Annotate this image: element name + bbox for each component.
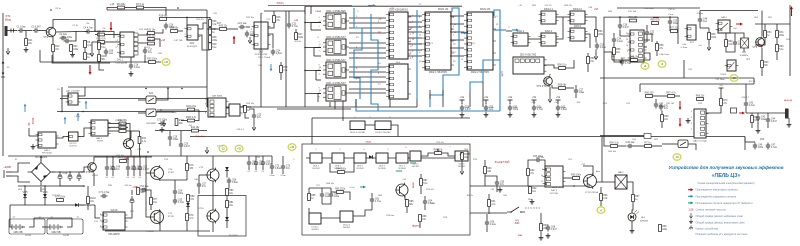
capacitor C41 <box>111 165 121 172</box>
wire <box>209 42 211 45</box>
IC DA7 (tone) <box>628 30 647 62</box>
signal arrow (blue) <box>461 32 467 35</box>
svg-text:R56 5,1к: R56 5,1к <box>557 65 567 67</box>
module DA9 И486 <box>208 98 229 117</box>
wire (pin link) <box>450 15 464 17</box>
transistor VT10 КТ315 <box>206 209 219 224</box>
wire <box>631 221 633 228</box>
wire <box>198 175 200 182</box>
junction <box>24 185 26 187</box>
svg-text:4,7мк: 4,7мк <box>625 63 632 65</box>
wire <box>52 171 56 173</box>
resistor <box>209 20 218 27</box>
wire <box>60 181 84 186</box>
capacitor C51 <box>756 115 767 122</box>
wire <box>174 196 176 198</box>
svg-text:R69 22к: R69 22к <box>696 96 705 98</box>
svg-text:R82 39к: R82 39к <box>536 157 544 159</box>
resistor R78 <box>488 200 497 207</box>
pin boxes DA7 <box>639 32 643 58</box>
wire <box>62 95 68 97</box>
wire <box>282 156 284 164</box>
logic cell DD8.2 <box>332 153 344 163</box>
wire <box>138 99 146 101</box>
junction <box>40 156 42 158</box>
capacitor C16 <box>252 113 262 120</box>
LED HL1 <box>628 210 639 221</box>
wire <box>726 33 744 38</box>
wire <box>212 181 214 210</box>
svg-text:Устройство для получения звуко: Устройство для получения звуковых эффект… <box>668 164 783 170</box>
wire <box>52 38 54 44</box>
diode VD3 <box>186 203 190 207</box>
wire (blue bus 5) <box>470 10 500 92</box>
svg-text:0,5мк: 0,5мк <box>561 109 568 111</box>
svg-text:Общий провод (минус) цифровых: Общий провод (минус) цифровых схем <box>696 214 743 218</box>
wire <box>556 16 570 18</box>
svg-text:С51 10мк: С51 10мк <box>715 79 724 81</box>
svg-text:Прохождение аналогового сигнал: Прохождение аналогового сигнала <box>696 188 739 192</box>
wire (main horizontal divider) <box>190 136 745 138</box>
svg-text:C53 1мк: C53 1мк <box>140 186 150 188</box>
svg-text:ЦАП: ЦАП <box>501 71 504 76</box>
wire <box>314 48 321 57</box>
svg-text:С16 0,1: С16 0,1 <box>236 129 244 131</box>
svg-text:0,5мк: 0,5мк <box>232 182 239 184</box>
switch linkage (dashed) <box>525 207 540 209</box>
wire <box>198 23 207 29</box>
wire (top right rail) <box>617 7 700 9</box>
svg-text:ЛАЙ: ЛАЙ <box>518 234 523 237</box>
svg-text:СЕ4А: СЕ4А <box>365 141 371 144</box>
pin boxes DA7.2 <box>547 168 551 186</box>
svg-text:КР142ЕН8: КР142ЕН8 <box>108 234 120 236</box>
wire <box>600 201 602 206</box>
wire <box>743 48 745 52</box>
svg-text:0,1мк: 0,1мк <box>269 175 274 177</box>
capacitor C50 <box>173 198 185 205</box>
wire <box>186 171 188 180</box>
capacitor C36 (electrolytic) <box>58 171 68 181</box>
wire <box>305 93 321 95</box>
resistor <box>209 36 218 43</box>
pin boxes DA9 <box>210 100 214 116</box>
wire (mid horizontal bus) <box>207 106 417 108</box>
junction <box>186 17 188 19</box>
svg-text:С45 1м: С45 1м <box>125 185 133 187</box>
bridge rectifier VD4 <box>28 159 55 186</box>
wire <box>311 29 321 31</box>
resistor R68 <box>725 40 734 47</box>
resistor R71 <box>776 45 785 52</box>
svg-text:DD1.2 К561ЛА7: DD1.2 К561ЛА7 <box>326 35 346 39</box>
resistor <box>147 36 156 41</box>
svg-text:R63 22к: R63 22к <box>564 5 572 7</box>
wire <box>566 87 574 89</box>
svg-text:3,58МГц: 3,58МГц <box>740 55 749 57</box>
svg-text:8: 8 <box>318 88 319 90</box>
wire <box>776 24 778 31</box>
svg-text:R45 22к: R45 22к <box>219 26 228 28</box>
svg-text:561ТЛ1: 561ТЛ1 <box>69 146 77 148</box>
svg-text:Прохождение сигнала генератора: Прохождение сигнала генератора ЧГ (вибра… <box>696 201 753 205</box>
wire <box>587 64 589 72</box>
wire <box>78 128 91 137</box>
svg-text:0,047: 0,047 <box>465 109 471 111</box>
svg-text:VT9 КТ315: VT9 КТ315 <box>536 84 549 88</box>
logic cell DD10.1 <box>309 213 321 224</box>
svg-text:0,047: 0,047 <box>771 121 777 123</box>
wire (gate feeder x305) <box>304 6 306 107</box>
power tap +5В <box>460 96 465 100</box>
pin boxes DA12 <box>701 111 705 136</box>
signal arrow (blue) <box>368 4 376 7</box>
capacitor C55 <box>370 197 382 204</box>
wire (vertical bus x261) <box>260 13 262 107</box>
resistor R54 <box>609 143 619 148</box>
wire <box>646 37 648 43</box>
resistor <box>147 30 156 35</box>
svg-text:C1 10мк: C1 10мк <box>17 26 27 28</box>
wire <box>106 172 108 177</box>
svg-text:СВ2 ВИКЛ: СВ2 ВИКЛ <box>146 123 156 125</box>
resistor R80 <box>529 187 538 194</box>
resistor R7 <box>136 4 145 9</box>
svg-text:R54 330: R54 330 <box>629 17 638 19</box>
resistor R5 <box>84 41 93 48</box>
wire (blue weave) <box>371 99 378 111</box>
wire <box>288 11 290 22</box>
wire <box>311 23 321 31</box>
wire <box>757 113 759 115</box>
voltage regulator DA10 КР142ЕН <box>101 208 128 230</box>
logic cell DD9.2 <box>376 153 388 163</box>
wire <box>29 135 38 137</box>
svg-text:100н: 100н <box>334 196 340 198</box>
schematic box (modulator) <box>198 196 246 237</box>
wire <box>725 33 727 40</box>
svg-text:R65 10к: R65 10к <box>608 151 616 153</box>
connector XT2 (output jack) <box>785 109 789 119</box>
svg-text:0,1мк: 0,1мк <box>490 224 497 226</box>
diode VD42 <box>225 217 229 221</box>
wire <box>371 193 373 197</box>
potentiometer R75 <box>433 150 443 155</box>
svg-text:КР574УД2: КР574УД2 <box>42 153 53 155</box>
capacitor C29 <box>271 49 283 56</box>
wire (maroon bus y109) <box>277 108 351 110</box>
wire <box>186 156 188 164</box>
highlight node +15 <box>235 145 243 152</box>
plug contacts <box>11 29 14 33</box>
resistor R34 <box>186 106 197 111</box>
wire <box>271 156 273 164</box>
wire (pin link) <box>408 55 422 57</box>
wire (pin link) <box>349 27 386 29</box>
resistor R64 <box>308 194 317 201</box>
svg-text:8: 8 <box>100 226 101 228</box>
capacitor C3 <box>62 37 73 43</box>
wire (blue bus horizontal) <box>356 99 500 111</box>
svg-text:Позиции приборов «У» находятся: Позиции приборов «У» находятся на плате <box>696 232 748 236</box>
transistor VT13 КТ815 <box>583 173 597 189</box>
svg-text:2: 2 <box>691 111 692 113</box>
resistor <box>147 59 158 64</box>
wire <box>305 47 321 49</box>
chassis ground <box>686 118 691 123</box>
wire (blue bus 4) <box>430 8 459 107</box>
capacitor C23 <box>595 43 607 50</box>
legend arrow digital (blue) <box>688 195 694 198</box>
wire (vertical bus x286) <box>285 11 287 107</box>
pin numbers (red) <box>453 17 456 63</box>
wire <box>99 62 104 70</box>
wire <box>95 34 97 36</box>
wire <box>107 8 117 11</box>
wire <box>187 207 189 214</box>
logic cell DD7.1 <box>396 153 408 163</box>
svg-text:DD9.1: DD9.1 <box>357 166 364 168</box>
svg-text:4: 4 <box>412 21 413 23</box>
logic cell DD16.1 <box>350 121 365 130</box>
wire <box>268 23 274 28</box>
svg-text:7: 7 <box>100 220 101 222</box>
wire <box>133 172 135 177</box>
chassis ground <box>787 122 792 127</box>
svg-text:11: 11 <box>250 41 252 43</box>
wire <box>255 167 257 171</box>
wire <box>304 6 306 14</box>
wire <box>91 32 114 39</box>
svg-text:R47 20к: R47 20к <box>116 155 124 157</box>
wire (pin link) <box>408 15 422 17</box>
svg-text:5: 5 <box>412 51 413 53</box>
power tap +5В <box>484 96 489 100</box>
wire <box>420 174 422 179</box>
svg-text:С42 100: С42 100 <box>628 11 637 13</box>
capacitor C23 (decoupling) <box>556 105 568 112</box>
wire <box>155 39 160 47</box>
wire <box>632 202 633 213</box>
capacitor C50 <box>744 101 756 108</box>
svg-text:C3 0,047: C3 0,047 <box>31 26 41 28</box>
svg-text:DA6.1: DA6.1 <box>96 137 103 140</box>
wire <box>544 65 558 68</box>
wire (rail y62) <box>40 61 161 63</box>
transistor VT12 <box>395 183 408 198</box>
pin numbers (red) <box>419 17 422 63</box>
wire <box>146 156 150 173</box>
wire (rail y24) <box>755 23 790 25</box>
junction <box>59 171 61 173</box>
wire <box>105 34 120 36</box>
wire <box>355 99 357 107</box>
wire <box>764 24 766 31</box>
wire <box>138 42 147 44</box>
logic IC DD13 <box>568 24 588 41</box>
power tap +5В <box>556 96 561 100</box>
wire <box>321 188 323 192</box>
capacitor C19 (decoupling) <box>460 105 472 112</box>
wire (vertical bus x207) <box>206 10 208 107</box>
resistor R56 <box>571 175 582 180</box>
wire <box>84 48 86 52</box>
wire <box>669 17 671 18</box>
signal arrow (blue, up) <box>77 113 80 122</box>
wire <box>227 28 238 30</box>
wire <box>195 110 199 121</box>
wire <box>139 131 141 137</box>
wire <box>280 62 282 66</box>
wire <box>39 50 41 62</box>
svg-text:К140УД22: К140УД22 <box>187 46 198 48</box>
wire <box>344 192 350 200</box>
svg-text:ВЫХОД: ВЫХОД <box>784 100 792 102</box>
wire (pin link) <box>408 49 422 51</box>
wire <box>169 142 171 147</box>
wire <box>226 208 228 217</box>
wire <box>56 137 69 139</box>
wire <box>126 130 140 132</box>
transistor VT5 <box>752 36 764 49</box>
svg-text:DD12.2: DD12.2 <box>573 7 583 11</box>
wire <box>604 137 610 147</box>
junction <box>145 88 147 90</box>
svg-text:6: 6 <box>100 214 101 216</box>
capacitor C57 <box>495 180 505 187</box>
signal arrow (red, up) <box>233 36 236 45</box>
resistor <box>97 31 106 36</box>
wire <box>533 100 535 104</box>
wire <box>700 27 709 29</box>
svg-text:R58 68к: R58 68к <box>558 85 567 87</box>
wire <box>144 8 166 16</box>
svg-text:R66 10к: R66 10к <box>326 183 334 185</box>
svg-text:R32 10к: R32 10к <box>147 30 156 32</box>
switch SA2.1 slash <box>720 23 728 30</box>
svg-text:0,1мк: 0,1мк <box>600 47 607 49</box>
wire <box>662 143 678 145</box>
connector XT1 (input jack) <box>5 26 8 36</box>
PROM DD2.2 564ПР2 <box>464 12 496 74</box>
capacitor C38 (electrolytic) <box>77 172 81 181</box>
svg-text:DA2: DA2 <box>190 42 195 45</box>
wire <box>416 99 418 107</box>
svg-text:3: 3 <box>318 74 319 76</box>
wire (pin link) <box>349 32 386 34</box>
wire <box>56 31 88 34</box>
capacitor C43 <box>645 30 655 37</box>
svg-text:3: 3 <box>117 46 118 48</box>
resistor R45 <box>629 17 638 22</box>
wire <box>485 100 487 104</box>
capacitor C51 <box>168 135 179 142</box>
mains plug X1 <box>4 170 12 178</box>
wire (output feed x602) <box>601 137 603 183</box>
wire <box>207 28 219 30</box>
capacitor C49 <box>659 104 669 111</box>
chassis ground <box>756 128 761 133</box>
highlight node -15 <box>219 145 227 152</box>
capacitor C29 <box>620 59 632 66</box>
signal arrow (red) <box>739 112 745 115</box>
wire (pin link) <box>450 39 464 41</box>
wire (rail y17) <box>623 16 678 18</box>
wire <box>98 50 100 54</box>
resistor R34 <box>776 31 785 38</box>
wire (pin link) <box>408 31 422 33</box>
junction <box>304 70 306 72</box>
schematic box (vibrato unit) <box>302 144 470 235</box>
wire (blue bus 3) <box>416 10 418 99</box>
svg-text:DD1.1 К561ЛЕ5: DD1.1 К561ЛЕ5 <box>326 9 346 13</box>
wire <box>619 17 621 22</box>
wire <box>248 167 250 171</box>
wire <box>596 181 615 183</box>
svg-text:8: 8 <box>205 113 206 115</box>
wire <box>420 186 422 194</box>
svg-text:Корпус устройства: Корпус устройства <box>696 226 719 230</box>
capacitor C4 <box>83 27 93 33</box>
svg-text:DD12.1: DD12.1 <box>544 7 554 11</box>
svg-text:R26 1к: R26 1к <box>295 41 302 43</box>
signal arrow (red, up) <box>790 6 793 16</box>
wire <box>656 51 658 56</box>
wire <box>160 179 187 181</box>
wire <box>600 187 602 194</box>
svg-text:C60: C60 <box>760 139 765 141</box>
wire <box>460 152 462 155</box>
resistor R45 <box>186 117 197 122</box>
wire <box>484 160 486 167</box>
resistor <box>159 16 168 21</box>
svg-text:R80 1к: R80 1к <box>467 195 474 197</box>
wire <box>87 186 89 196</box>
svg-text:DD1.5: DD1.5 <box>413 164 420 166</box>
svg-text:100н: 100н <box>513 109 519 111</box>
wire <box>24 186 26 194</box>
wire (rail y130) <box>155 130 207 132</box>
wire <box>677 17 679 31</box>
svg-text:ЗАДЕРЖ: ЗАДЕРЖ <box>412 225 421 228</box>
svg-text:1: 1 <box>627 51 628 53</box>
wire <box>527 176 529 186</box>
wire <box>108 130 119 132</box>
capacitor C58 <box>533 156 544 162</box>
wire <box>556 17 563 39</box>
wire (left rail y156) <box>8 155 272 157</box>
svg-text:0,15мк: 0,15мк <box>681 47 687 49</box>
capacitor C40 <box>105 165 117 172</box>
capacitor C47 <box>227 178 239 185</box>
wire <box>127 172 129 177</box>
signal arrow (red, down) <box>679 101 682 110</box>
svg-text:R101 15к: R101 15к <box>186 106 197 108</box>
wire <box>228 185 230 189</box>
transistor VT1 КТ3102 <box>43 26 55 39</box>
logic cell DD1.5 <box>410 151 421 161</box>
resistor R56 <box>55 197 66 202</box>
wire (pin link) <box>408 21 422 23</box>
wire <box>209 27 211 28</box>
resistor R58 <box>226 201 235 208</box>
svg-text:0,5мк: 0,5мк <box>276 53 283 55</box>
svg-text:0,1мк: 0,1мк <box>536 107 542 109</box>
wire <box>611 52 613 60</box>
wire <box>130 156 152 158</box>
wire <box>18 185 84 187</box>
wire <box>644 53 650 60</box>
